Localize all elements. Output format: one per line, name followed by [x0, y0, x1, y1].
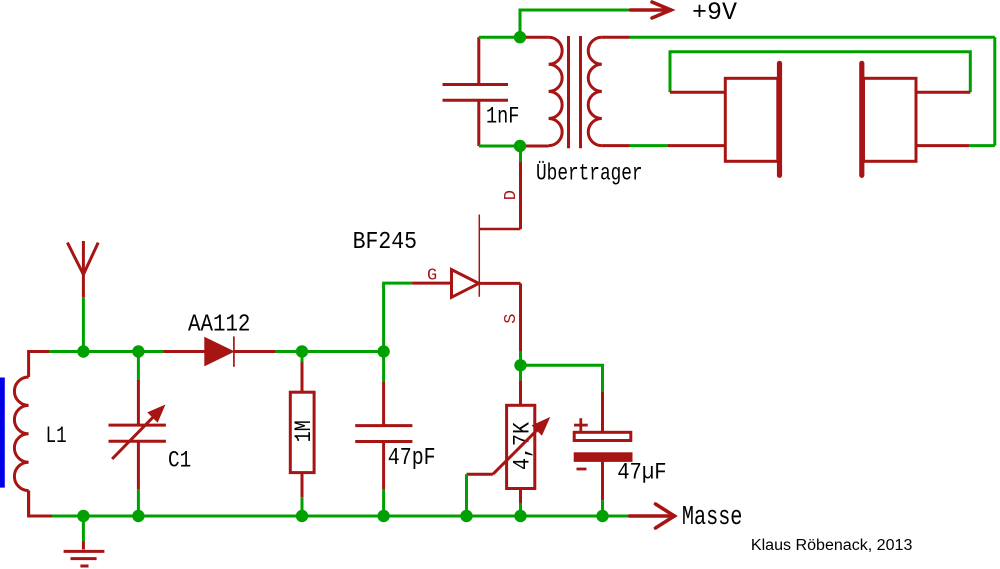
- antenna ANT1: [67, 241, 98, 297]
- wire top rail green: [49, 350, 164, 353]
- svg-text:1M: 1M: [291, 420, 317, 442]
- wire +9V: [520, 10, 631, 37]
- svg-text:D: D: [502, 190, 521, 200]
- earphone LS1: [725, 63, 779, 175]
- wire 47pF bottom: [382, 442, 385, 490]
- svg-text:+9V: +9V: [692, 0, 737, 27]
- junction node dots: [77, 31, 609, 522]
- 47uF bottom plate: [574, 453, 632, 462]
- wire 1M top: [301, 352, 304, 364]
- svg-text:L1: L1: [46, 423, 67, 449]
- wire right vertical: [993, 37, 996, 145]
- transformer core bars: [569, 36, 581, 148]
- minus sign: [577, 468, 587, 471]
- svg-text:1nF: 1nF: [486, 103, 519, 129]
- svg-text:47pF: 47pF: [388, 445, 436, 472]
- wire C1 bottom: [137, 441, 140, 489]
- wire gate net: [384, 283, 413, 351]
- wire left earphone bottom pin: [668, 144, 725, 147]
- wire right bottom green: [969, 144, 995, 147]
- svg-text:S: S: [502, 314, 521, 324]
- variable capacitor C1: [109, 416, 166, 459]
- wire 47pF top: [382, 352, 385, 383]
- wire 1nF top to node: [479, 36, 520, 39]
- C1 arrow head: [149, 406, 164, 421]
- wire gate pin: [412, 282, 451, 285]
- wire source pin: [519, 283, 522, 351]
- svg-text:Masse: Masse: [682, 503, 743, 533]
- wire secondary bottom green: [630, 144, 670, 147]
- wire diode to node: [275, 350, 383, 353]
- wire green loop between earphones: [670, 52, 970, 93]
- wire drain pin: [519, 162, 522, 229]
- svg-text:Übertrager: Übertrager: [536, 160, 643, 187]
- wire secondary top to right: [630, 36, 995, 39]
- bottom rail left red corner: [29, 491, 54, 516]
- wire wiper: [467, 473, 493, 476]
- capacitor C3 47pF: [355, 426, 412, 442]
- wire C1 top: [137, 352, 140, 382]
- svg-text:Klaus Röbenack, 2013: Klaus Röbenack, 2013: [751, 537, 913, 554]
- ground symbol: [64, 516, 105, 566]
- wire antenna to top rail: [82, 297, 85, 352]
- +9V arrow: [631, 2, 672, 18]
- wire source rail to 47uF: [521, 365, 603, 392]
- bottom rail green wire: [52, 515, 630, 518]
- wire right earphone top pin: [916, 91, 970, 94]
- transformer primary winding: [520, 37, 562, 146]
- transformer secondary winding: [588, 37, 629, 145]
- 1nF capacitor C2: [443, 37, 509, 146]
- earphone LS2: [862, 63, 916, 175]
- svg-text:BF245: BF245: [353, 229, 417, 256]
- potentiometer R2 4,7K: [519, 380, 522, 405]
- inductor L1: [14, 377, 28, 516]
- Masse arrow: [630, 504, 675, 528]
- electrolytic capacitor C4 47uF top plate: [601, 392, 604, 432]
- pot wiper arrow: [493, 427, 540, 474]
- wire 1nF bottom to node: [479, 145, 520, 148]
- wire right earphone bottom pin: [916, 144, 969, 147]
- wire top rail left red corner: [29, 352, 51, 378]
- svg-text:47µF: 47µF: [617, 460, 666, 486]
- wire diode anode pin: [164, 350, 206, 353]
- transistor Q1 BF245: [452, 215, 521, 298]
- resistor R1 1M: [290, 392, 314, 472]
- svg-text:AA112: AA112: [188, 311, 250, 338]
- diode AA112: [205, 336, 276, 366]
- svg-text:G: G: [427, 266, 437, 285]
- wire left earphone top pin: [670, 91, 725, 94]
- plus sign: [574, 418, 588, 432]
- ferrite core bar (blue): [0, 378, 5, 488]
- svg-text:C1: C1: [168, 447, 191, 473]
- wire 1M bottom: [301, 473, 304, 498]
